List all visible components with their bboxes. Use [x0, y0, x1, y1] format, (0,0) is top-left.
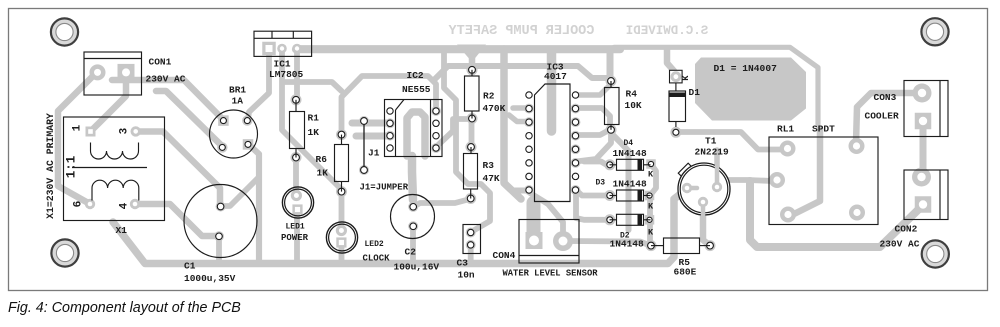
- node CON2 pads: [912, 168, 931, 187]
- svg-text:100u,16V: 100u,16V: [394, 262, 440, 273]
- wire T1 emitter to R5 right: [703, 203, 710, 246]
- svg-text:COOLER PUMP SAFETY: COOLER PUMP SAFETY: [448, 24, 595, 39]
- wire CON3 top pad to relay top-right pad: [856, 93, 919, 143]
- svg-text:2N2219: 2N2219: [695, 147, 730, 158]
- node LED2 pads: [336, 225, 347, 236]
- wire X1 pin 3 to C1 positive: [138, 132, 220, 205]
- svg-text:47K: 47K: [483, 173, 500, 184]
- wire AC feed to BR1 input A: [112, 80, 223, 120]
- wire IC1 pin2 diagonal to R6/LED2 column: [282, 52, 340, 188]
- node D3 pads: [604, 190, 615, 201]
- svg-text:K: K: [648, 202, 654, 212]
- svg-text:R1: R1: [308, 113, 320, 124]
- mounting hole: [51, 239, 78, 266]
- wire IC3 to CON4 right pad: [530, 193, 563, 238]
- svg-text:LED2: LED2: [365, 240, 384, 249]
- svg-text:1:1: 1:1: [65, 156, 79, 179]
- mirrored copper text COOLER PUMP SAFETY: [448, 24, 595, 39]
- connector CON3: [904, 81, 948, 137]
- diode D2: [610, 219, 617, 221]
- wire loop inside IC2: [407, 112, 425, 156]
- svg-text:K: K: [648, 228, 654, 238]
- node BR1 pads: [218, 115, 229, 126]
- svg-text:R6: R6: [316, 154, 328, 165]
- wire CON3 bottom to CON2 top: [920, 122, 927, 176]
- node X1 pin pads: [86, 127, 96, 137]
- svg-text:1N4148: 1N4148: [610, 239, 645, 250]
- svg-text:CON3: CON3: [874, 92, 897, 103]
- svg-text:680E: 680E: [674, 267, 697, 278]
- node C2 pads: [408, 202, 418, 212]
- wire AC feed to BR1 input B: [156, 91, 222, 146]
- wire relay junction down to CON2 ground run: [750, 181, 921, 247]
- wire diode cathode bus to R5 left: [650, 164, 656, 243]
- wire R4 bottom fan to IC3 pad b: [576, 129, 611, 162]
- svg-text:CON4: CON4: [493, 250, 516, 261]
- wire branch from IC1 area to R6 riser: [283, 82, 342, 91]
- caption figure title: [8, 300, 241, 316]
- wire C2 negative to ground rail: [410, 228, 416, 261]
- svg-text:X1: X1: [116, 225, 128, 236]
- svg-text:4: 4: [119, 202, 131, 209]
- resistor R3: [470, 147, 472, 154]
- wire CON1 left pad to X1 pin 6: [58, 72, 97, 204]
- svg-text:1A: 1A: [232, 96, 244, 107]
- svg-text:CON2: CON2: [895, 224, 918, 235]
- resistor R5: [651, 245, 664, 247]
- wire CON1 right pad to X1 pin 1: [91, 78, 127, 132]
- wire rail drop to R2 top: [457, 45, 486, 63]
- connector CON2: [904, 170, 948, 220]
- LED1: [282, 187, 313, 218]
- bridge rectifier BR1: [210, 110, 258, 158]
- wire R4 bottom fan to IC3 pad a: [576, 129, 611, 135]
- wire R6 bottom to LED2 anode: [339, 190, 345, 230]
- node R2 pads: [467, 64, 478, 75]
- node J1 pads: [359, 116, 369, 126]
- svg-text:D1: D1: [689, 87, 701, 98]
- resistor R2: [471, 70, 473, 76]
- svg-text:D4: D4: [624, 139, 634, 148]
- transformer X1: [64, 117, 165, 221]
- svg-text:C1: C1: [184, 261, 196, 272]
- svg-text:D3: D3: [596, 179, 606, 188]
- node R5 pads: [646, 240, 657, 251]
- node R6 pads: [336, 129, 347, 140]
- wire IC2 bottom to C2 top pad: [412, 156, 413, 200]
- svg-text:X1=230V AC PRIMARY: X1=230V AC PRIMARY: [45, 113, 56, 219]
- svg-text:470K: 470K: [483, 103, 506, 114]
- node CON4 pads: [526, 232, 543, 249]
- wire CON4 right pad to R5 left: [566, 241, 650, 246]
- mounting hole: [921, 18, 948, 45]
- svg-text:J1=JUMPER: J1=JUMPER: [360, 183, 409, 193]
- wire ground rail across board bottom: [113, 189, 687, 264]
- svg-text:1N4148: 1N4148: [613, 179, 648, 190]
- node D1 pads: [670, 70, 683, 83]
- svg-text:IC1: IC1: [274, 59, 291, 70]
- svg-text:1K: 1K: [308, 127, 320, 138]
- counter IC3 4017: [535, 84, 571, 202]
- svg-text:K: K: [648, 170, 654, 180]
- svg-text:LED1: LED1: [286, 223, 305, 232]
- svg-text:WATER LEVEL SENSOR: WATER LEVEL SENSOR: [503, 269, 599, 279]
- wire IC1 pin1 to BR1 + output: [248, 52, 269, 120]
- wire IC3 pad to D3 anode: [576, 190, 607, 196]
- wire IC2 pin trace left b: [356, 133, 390, 140]
- svg-text:R3: R3: [483, 160, 495, 171]
- node R4 pads: [606, 76, 617, 87]
- wire IC3 left pad stubs: [513, 105, 530, 111]
- svg-text:230V AC: 230V AC: [146, 74, 186, 85]
- wire relay internal trace to bottom-left relay pad: [792, 129, 820, 215]
- wire IC2 right pad to R2 bottom: [436, 119, 470, 147]
- svg-text:D1 = 1N4007: D1 = 1N4007: [714, 63, 778, 74]
- wire C3 top riser: [444, 49, 490, 232]
- node LED1 pads: [291, 190, 302, 201]
- capacitor C1: [184, 185, 257, 258]
- node CON3 pads: [913, 84, 932, 103]
- wire D1 anode to relay top-left pad: [677, 132, 785, 150]
- wire R1 bottom to LED1 anode: [293, 157, 299, 196]
- svg-text:R4: R4: [626, 89, 638, 100]
- svg-text:S.C.DWIVEDI: S.C.DWIVEDI: [626, 24, 709, 38]
- wire corner to IC3 pad 8: [504, 182, 528, 191]
- node RL1 pads: [780, 141, 796, 157]
- wire rail drop to D1 cathode pad: [667, 49, 674, 71]
- wire T1 collector to relay coil pad: [717, 180, 773, 187]
- wire IC3 pin to R4 body: [576, 108, 610, 128]
- svg-text:COOLER: COOLER: [865, 111, 900, 122]
- node CON1 pads: [90, 64, 106, 80]
- svg-text:4017: 4017: [544, 71, 567, 82]
- svg-text:K: K: [681, 75, 691, 81]
- wire LED1 cathode to ground rail: [294, 210, 300, 261]
- svg-text:CLOCK: CLOCK: [363, 254, 391, 264]
- regulator IC1 LM7805: [254, 31, 312, 56]
- jumper J1: [363, 121, 365, 170]
- wire through IC3 body: [547, 52, 557, 131]
- wire wide feed into CON4 left pad: [527, 203, 541, 235]
- wire top supply rail from IC1 to relay area: [296, 45, 620, 53]
- resistor R6: [341, 135, 343, 145]
- diode D4: [610, 164, 617, 166]
- wire IC1 pin3 to R1 top: [294, 52, 300, 99]
- wire R4 bottom down through diodes: [611, 133, 629, 230]
- mirrored copper text S.C.DWIVEDI: [626, 24, 709, 38]
- node D4 pads: [604, 159, 615, 170]
- mounting hole: [922, 240, 949, 267]
- node IC1 pads: [262, 42, 276, 56]
- capacitor C2: [391, 195, 435, 239]
- svg-text:LM7805: LM7805: [269, 69, 304, 80]
- node T1 pads: [682, 183, 692, 193]
- node R1 pads: [291, 94, 302, 105]
- svg-text:T1: T1: [705, 136, 717, 147]
- connector CON4 water level sensor: [519, 220, 579, 264]
- svg-text:230V AC: 230V AC: [880, 239, 920, 250]
- svg-text:SPDT: SPDT: [812, 124, 835, 135]
- svg-text:1K: 1K: [317, 168, 329, 179]
- wire IC3 pad to D2 anode: [576, 192, 607, 220]
- node C3 pads: [466, 228, 476, 238]
- connector CON1: [84, 52, 142, 95]
- wire BR1 output down right of C1 to ground rail: [248, 144, 259, 262]
- svg-text:1: 1: [72, 124, 84, 131]
- diode D1: [675, 83, 677, 91]
- wire R2 bottom to R3 top: [469, 118, 475, 147]
- wire R3 bottom to C2 positive: [413, 199, 470, 207]
- timer IC2 NE555: [385, 100, 443, 157]
- svg-text:POWER: POWER: [281, 233, 309, 243]
- wire X1 pin 4 to C1 negative: [138, 204, 216, 236]
- wire C1 negative to ground rail: [216, 237, 222, 260]
- node D2 pads: [604, 214, 615, 225]
- svg-text:NE555: NE555: [402, 84, 431, 95]
- mounting hole: [51, 18, 78, 45]
- svg-text:6: 6: [73, 201, 85, 208]
- node C1 pads: [216, 202, 226, 212]
- diode D3: [610, 195, 617, 197]
- wire T1 collector up to relay coil net: [714, 150, 720, 182]
- resistor R1: [295, 100, 297, 112]
- relay RL1: [769, 137, 878, 225]
- wire C3 bottom to ground rail: [468, 245, 474, 261]
- svg-text:1N4148: 1N4148: [613, 148, 648, 159]
- svg-text:C2: C2: [405, 247, 417, 258]
- transistor T1 2N2219: [678, 163, 693, 178]
- wire IC3 pad1 to R4 top: [577, 85, 610, 95]
- svg-text:3: 3: [119, 127, 131, 134]
- svg-text:C3: C3: [457, 258, 469, 269]
- wire branch to C1 positive: [221, 177, 259, 206]
- wire long mid rail to R4: [434, 66, 609, 80]
- wire R6 top via 555 area to R4 top: [342, 76, 437, 133]
- wire LED2 cathode to ground rail: [339, 243, 345, 261]
- svg-text:RL1: RL1: [777, 124, 794, 135]
- copper pour D1=1N4007 region: [695, 58, 806, 121]
- node R3 pads: [466, 142, 477, 153]
- wire supply drop to CON4 sensor feed: [504, 49, 521, 199]
- svg-text:10n: 10n: [458, 270, 475, 281]
- wire IC2 pin trace left a: [352, 120, 390, 127]
- wire rail drop to R4 top: [607, 51, 614, 80]
- wire IC3 pad to D4 anode: [584, 162, 609, 165]
- svg-text:10K: 10K: [625, 100, 642, 111]
- svg-text:J1: J1: [368, 148, 380, 159]
- resistor R4: [610, 81, 612, 88]
- svg-text:CON1: CON1: [149, 57, 172, 68]
- svg-text:R2: R2: [483, 91, 495, 102]
- svg-text:IC2: IC2: [407, 70, 424, 81]
- LED2: [326, 222, 357, 253]
- svg-text:1000u,35V: 1000u,35V: [184, 273, 236, 284]
- svg-text:BR1: BR1: [229, 85, 246, 96]
- capacitor C3: [463, 225, 481, 254]
